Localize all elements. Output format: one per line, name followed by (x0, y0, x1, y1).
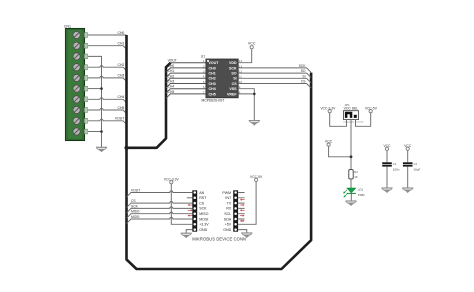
wire mikroBUS VOUT (127, 188, 193, 197)
wire mikroBUS SCK (127, 204, 193, 213)
arrow MISO direction (188, 215, 193, 217)
svg-text:13: 13 (239, 64, 243, 68)
svg-text:VCC SEL: VCC SEL (344, 107, 359, 111)
wire CH3 from CN1 to bus (88, 74, 127, 82)
ground LED (345, 201, 356, 206)
svg-text:2: 2 (203, 64, 205, 68)
svg-text:CH5: CH5 (209, 92, 216, 96)
wire +5V (238, 181, 256, 224)
arrow TX direction (240, 204, 245, 206)
junction CN1 gnd pin6 (100, 87, 103, 90)
wire RST stub (187, 197, 193, 199)
LED LD1 PWR (343, 188, 364, 198)
power VCC above U1 (248, 42, 256, 49)
svg-text:3: 3 (203, 70, 205, 74)
svg-text:VOUT: VOUT (209, 61, 220, 65)
power VCC to net (325, 139, 333, 146)
svg-text:CH0: CH0 (118, 31, 125, 35)
arrow RX direction (240, 209, 245, 211)
junction VCC net (350, 155, 353, 158)
svg-text:VSS: VSS (229, 87, 237, 91)
svg-text:SCK: SCK (199, 207, 207, 211)
svg-text:CS: CS (199, 201, 205, 205)
svg-text:MISO: MISO (199, 212, 208, 216)
svg-text:VOUT: VOUT (131, 188, 140, 192)
svg-text:PWM: PWM (222, 191, 231, 195)
svg-text:CH3: CH3 (118, 74, 125, 78)
svg-text:CH4: CH4 (118, 95, 125, 99)
junction VSS/VREF (253, 93, 256, 96)
svg-text:MOSI: MOSI (199, 217, 208, 221)
header mikroBUS left (AN..GND) (192, 190, 209, 232)
arrow INT direction (240, 199, 245, 201)
header mikroBUS right (PWM..GND) (222, 190, 238, 232)
svg-text:VCC: VCC (248, 42, 256, 46)
svg-text:CH5: CH5 (118, 106, 125, 110)
ground below CN1 (96, 147, 107, 152)
wire R1 to LED (350, 179, 352, 188)
svg-text:R1: R1 (354, 170, 358, 174)
svg-text:MCP6S26-I/ST: MCP6S26-I/ST (202, 99, 225, 103)
wire mikroBUS CS (127, 199, 193, 208)
wire U1 SI pin 11 to bus (238, 74, 311, 82)
svg-text:SI: SI (302, 74, 305, 78)
svg-text:INT: INT (225, 196, 232, 200)
svg-text:TX: TX (227, 201, 232, 205)
svg-text:+5V: +5V (225, 223, 232, 227)
wire U1 CH1 pin 3 (166, 69, 206, 77)
wire CN1 GND net (88, 56, 102, 147)
wire U1 VDD pin14 to VCC (238, 49, 252, 63)
svg-text:CH1: CH1 (118, 42, 125, 46)
ground left header (181, 233, 192, 238)
svg-text:RX: RX (226, 207, 232, 211)
resistor R1 1K (349, 170, 358, 179)
svg-text:CH0: CH0 (168, 64, 175, 68)
svg-text:CS: CS (131, 199, 136, 203)
connector CN1 (64, 25, 88, 141)
svg-text:100n: 100n (393, 168, 400, 172)
svg-text:GND: GND (199, 228, 207, 232)
svg-text:10: 10 (239, 80, 243, 84)
svg-text:MIKROBUS DEVICE CONN: MIKROBUS DEVICE CONN (192, 236, 246, 241)
power VCC-5V at JP1 (365, 106, 378, 112)
svg-text:CS: CS (301, 80, 306, 84)
svg-text:CH4: CH4 (168, 85, 175, 89)
svg-text:CH2: CH2 (209, 77, 216, 81)
arrow SCL direction (240, 215, 245, 217)
svg-text:1K: 1K (354, 175, 358, 179)
power VCC-3.3V at JP1 (320, 106, 336, 112)
svg-text:CH4: CH4 (209, 87, 216, 91)
svg-text:SO: SO (301, 69, 306, 73)
wire U1 CH0 pin 2 (166, 64, 206, 72)
svg-text:RST: RST (199, 196, 207, 200)
svg-text:MISO: MISO (131, 210, 140, 214)
wire U1 SCK pin 13 to bus (238, 64, 311, 72)
svg-text:+3.3V: +3.3V (199, 223, 209, 227)
wire JP1 pin2 VCC net (350, 120, 352, 170)
svg-text:SDA: SDA (224, 217, 232, 221)
wire CH2 from CN1 to bus (88, 63, 127, 71)
arrow SCK direction (188, 209, 193, 211)
wire VCC branch (329, 146, 351, 157)
svg-text:14: 14 (239, 59, 243, 63)
svg-text:SI: SI (233, 77, 236, 81)
svg-text:CH3: CH3 (209, 82, 216, 86)
junction bus branch (124, 146, 128, 150)
power VCC-3.3V above left header (164, 177, 180, 183)
svg-text:VREF: VREF (227, 92, 237, 96)
wire mikroBUS MOSI (127, 215, 193, 224)
wire U1 VSS pin9 / VREF pin8 to ground (238, 85, 254, 120)
wire CH5 from CN1 to bus (88, 106, 127, 114)
svg-text:6: 6 (203, 85, 205, 89)
svg-text:C1: C1 (393, 162, 397, 166)
svg-text:VDD: VDD (229, 61, 237, 65)
svg-text:CH1: CH1 (209, 72, 216, 76)
bus branch to U1 riser (127, 63, 171, 148)
junction CN1 gnd pin10 (100, 130, 103, 133)
svg-text:C2: C2 (413, 162, 417, 166)
ground right header (241, 233, 252, 238)
wire U1 CH4 pin 6 (166, 85, 206, 93)
svg-text:CH2: CH2 (168, 74, 175, 78)
wire U1 VOUT pin 1 (168, 59, 206, 63)
arrow SDA bidirectional (240, 220, 245, 222)
power VCC above C2 (404, 144, 412, 151)
svg-text:SCK: SCK (299, 64, 307, 68)
wire CH1 from CN1 to bus (88, 42, 127, 50)
svg-text:11: 11 (239, 75, 242, 79)
svg-text:LD1: LD1 (358, 188, 364, 192)
wire left header GND (186, 230, 192, 233)
wire CH4 from CN1 to bus (88, 95, 127, 103)
arrow CS direction (188, 204, 193, 206)
svg-text:SO: SO (231, 72, 236, 76)
svg-text:AN: AN (199, 191, 204, 195)
wire LED to ground (350, 193, 352, 200)
svg-text:5: 5 (203, 80, 205, 84)
ground C1 (381, 188, 392, 193)
svg-text:8: 8 (239, 90, 241, 94)
svg-text:9: 9 (239, 85, 241, 89)
svg-text:SCL: SCL (224, 212, 231, 216)
wire JP1 pin1 (330, 113, 347, 127)
wire JP1 pin3 (356, 113, 371, 127)
svg-text:10µF: 10µF (413, 168, 420, 172)
wire U1 CS pin 10 to bus (238, 80, 311, 88)
wire VOUT from CN1 to bus (88, 117, 127, 125)
svg-text:MOSI: MOSI (131, 215, 140, 219)
wire +3.3V (171, 184, 192, 225)
svg-text:CH1: CH1 (168, 69, 175, 73)
capacitor C2 10µF (403, 150, 421, 187)
svg-text:GND: GND (223, 228, 231, 232)
svg-text:4: 4 (203, 75, 205, 79)
svg-text:VOUT: VOUT (115, 117, 124, 121)
svg-text:CH5: CH5 (168, 90, 175, 94)
svg-text:SCK: SCK (131, 204, 139, 208)
ground C2 (402, 188, 413, 193)
wire U1 SO pin 12 to bus (238, 69, 311, 77)
jumper JP1 VCC SEL (343, 103, 363, 124)
svg-text:CS: CS (232, 82, 238, 86)
wire right header GND (238, 230, 247, 233)
op-amp U1 MCP6S26 PGA (201, 55, 238, 103)
capacitor C1 100n (382, 150, 400, 187)
svg-text:PWR: PWR (358, 193, 365, 197)
wire U1 CH3 pin 5 (166, 80, 206, 88)
svg-text:1: 1 (203, 59, 205, 63)
svg-text:7: 7 (203, 90, 205, 94)
wire U1 CH2 pin 4 (166, 74, 206, 82)
power VCC-5V above right header (250, 175, 263, 181)
wire right header stubs (238, 193, 245, 220)
bus main loop (CN1 to mikroBUS to U1 SPI) (127, 35, 312, 269)
svg-text:CH0: CH0 (209, 66, 216, 70)
svg-text:SCK: SCK (229, 66, 237, 70)
svg-text:U1: U1 (201, 55, 205, 59)
svg-text:VOUT: VOUT (168, 59, 177, 63)
svg-text:CH3: CH3 (168, 80, 175, 84)
svg-text:12: 12 (239, 70, 243, 74)
power VCC above C1 (384, 144, 392, 151)
wire U1 CH5 pin 7 (166, 90, 206, 98)
svg-text:CH2: CH2 (118, 63, 125, 67)
wire mikroBUS MISO (127, 210, 193, 219)
wire CH0 from CN1 to bus (88, 31, 127, 35)
ground U1 VSS (249, 121, 260, 126)
